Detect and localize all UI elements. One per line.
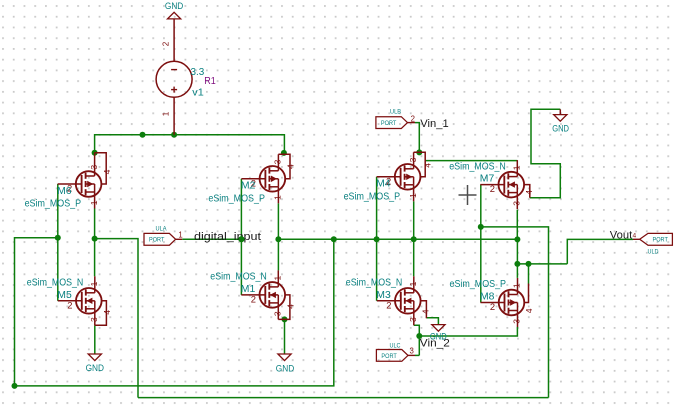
node bus junction M4/M3 drains	[411, 236, 417, 242]
wire Vout riser	[567, 239, 633, 264]
wire M7 source down	[516, 210, 518, 240]
svg-text:2: 2	[162, 41, 171, 46]
svg-text:4: 4	[632, 232, 636, 239]
wire gate bus 227 right	[481, 227, 549, 398]
node M7/M8 gate junction	[478, 224, 484, 230]
svg-text:1: 1	[273, 275, 283, 280]
node Vin_2 junction	[416, 333, 422, 339]
svg-text:1: 1	[408, 281, 418, 286]
wire M3 body to ground	[426, 318, 438, 325]
wire M8 source to net	[419, 327, 517, 336]
wire M3 drain up	[413, 239, 415, 276]
svg-text:4: 4	[286, 304, 296, 309]
svg-text:ULD: ULD	[648, 249, 659, 256]
svg-text:eSim_MOS_N: eSim_MOS_N	[210, 272, 266, 283]
svg-text:1: 1	[273, 195, 283, 200]
wire M7 source to M8 drain	[516, 239, 518, 264]
svg-text:1: 1	[512, 165, 522, 170]
svg-text:GND: GND	[552, 124, 569, 134]
node M1 source junction	[282, 316, 288, 322]
wire M4 body to M7 drain	[426, 160, 518, 162]
wire Vin_1 to M4	[415, 123, 419, 153]
ground below M5	[88, 354, 101, 361]
node inverter2 gate junction	[238, 236, 244, 242]
wire digital_input to inverter2 gates	[182, 238, 241, 240]
node M4 top junction	[416, 149, 422, 155]
svg-text:2: 2	[411, 114, 415, 123]
node bus junction to line A	[331, 236, 337, 242]
svg-text:PORT: PORT	[381, 353, 396, 360]
svg-text:4: 4	[422, 163, 432, 168]
svg-text:M8: M8	[480, 292, 495, 303]
svg-text:4: 4	[524, 190, 534, 195]
wire M7 gate vertical	[480, 185, 482, 227]
node M2 drain junction	[281, 150, 287, 156]
transistor M3	[395, 288, 421, 314]
svg-text:M1: M1	[241, 284, 256, 295]
ground below M1	[278, 354, 291, 361]
wire VDD bus from M6 drain to M2 drain	[95, 135, 285, 153]
node bus junction M4/M3 gates	[374, 236, 380, 242]
svg-text:3: 3	[512, 201, 522, 206]
wire M1 source to ground	[284, 319, 286, 354]
wire M7 body to ground	[530, 109, 561, 198]
svg-text:eSim_MOS_P: eSim_MOS_P	[208, 193, 265, 204]
wire M8 drain stem top	[516, 264, 518, 278]
pin 4 of port ULD	[633, 238, 640, 240]
svg-text:eSim_MOS_P: eSim_MOS_P	[450, 279, 507, 290]
svg-text:2: 2	[386, 299, 391, 310]
svg-text:digital_input: digital_input	[194, 231, 262, 243]
svg-text:2: 2	[67, 299, 72, 310]
transistor M1	[260, 282, 286, 308]
svg-text:v1: v1	[192, 88, 204, 99]
node gate bus junction	[55, 235, 61, 241]
svg-text:Vin_1: Vin_1	[420, 118, 449, 130]
wire inverter2 output M2-M1	[277, 203, 279, 270]
ground below M3 body	[432, 325, 445, 332]
wire Vout horizontal	[517, 263, 567, 265]
svg-text:eSim_MOS_N: eSim_MOS_N	[449, 161, 506, 172]
node M8 body junction	[526, 261, 532, 267]
node inverter2 output junction	[275, 236, 281, 242]
wire M5 source to ground	[94, 325, 96, 354]
transistor M8	[499, 290, 525, 316]
svg-text:PORT: PORT	[149, 237, 164, 244]
svg-text:3: 3	[273, 159, 283, 164]
wire M3 gate vertical	[376, 239, 378, 300]
svg-text:3.3: 3.3	[191, 67, 205, 78]
svg-text:eSim_MOS_N: eSim_MOS_N	[27, 278, 84, 289]
svg-text:M5: M5	[57, 290, 72, 301]
transistor M6	[76, 171, 102, 197]
wire inverter1 output branch right	[95, 239, 138, 398]
svg-text:2: 2	[490, 301, 495, 312]
node inverter2 gate junction dot overlay	[238, 236, 244, 242]
pin 2 of port ULB	[408, 122, 416, 124]
transistor M5	[76, 288, 102, 314]
svg-text:3: 3	[512, 319, 522, 324]
svg-text:4: 4	[421, 309, 431, 314]
svg-text:M3: M3	[376, 290, 391, 301]
transistor M7	[499, 172, 525, 198]
svg-text:GND: GND	[276, 364, 295, 374]
wire Vin_2 vertical	[418, 336, 420, 355]
wire ULC pin to net	[415, 354, 419, 356]
node VDD junction at v1	[171, 132, 177, 138]
svg-text:PORT: PORT	[381, 120, 396, 127]
svg-text:M7: M7	[480, 174, 495, 185]
svg-text:3: 3	[408, 157, 418, 162]
origin cross marker	[459, 194, 477, 196]
port U1C Vin_2	[376, 350, 408, 362]
transistor M2	[260, 166, 286, 192]
svg-text:eSim_MOS_P: eSim_MOS_P	[25, 199, 82, 210]
wire M4 gate vertical	[376, 177, 378, 240]
svg-text:1: 1	[512, 283, 522, 288]
svg-text:ULB: ULB	[390, 108, 401, 115]
svg-text:eSim_MOS_P: eSim_MOS_P	[344, 191, 401, 202]
port U1B Vin_1	[376, 117, 408, 129]
svg-text:3: 3	[89, 165, 99, 170]
wire bottom line A	[15, 239, 334, 386]
svg-text:Vin_2: Vin_2	[420, 337, 450, 349]
node inverter1 output junction	[92, 236, 98, 242]
svg-text:M2: M2	[241, 181, 256, 192]
node M8 drain junction	[514, 261, 520, 267]
wire output bus to right	[278, 238, 517, 240]
wire inverter1 output M6-M5	[94, 209, 96, 277]
svg-text:2: 2	[490, 183, 495, 194]
svg-text:3: 3	[273, 311, 283, 316]
wire M8 gate vertical	[480, 227, 482, 303]
svg-text:GND: GND	[165, 1, 184, 11]
svg-text:eSim_MOS_N: eSim_MOS_N	[346, 278, 403, 289]
svg-text:1: 1	[178, 231, 182, 240]
svg-text:3: 3	[410, 346, 414, 355]
svg-text:1: 1	[89, 281, 99, 286]
port U1A digital_input	[144, 233, 176, 245]
transistor M4	[395, 164, 421, 190]
svg-text:ULA: ULA	[156, 226, 168, 233]
voltage source v1	[156, 19, 205, 135]
node bottom left corner	[12, 383, 18, 389]
svg-text:3: 3	[89, 317, 99, 322]
svg-text:M4: M4	[376, 179, 391, 190]
node VDD stray junction	[140, 132, 146, 138]
ground top GND	[168, 12, 181, 19]
pin 3 of port ULC	[408, 354, 415, 356]
wire gate bus branch left	[15, 238, 58, 386]
svg-text:4: 4	[286, 164, 296, 169]
wire M8 body up	[528, 264, 530, 284]
svg-text:4: 4	[524, 308, 534, 313]
svg-text:M6: M6	[57, 186, 72, 197]
wire M4 drain down	[413, 201, 415, 239]
wire gate bus M6-M5	[57, 184, 59, 301]
svg-text:1: 1	[408, 193, 418, 198]
ground right of M7	[554, 115, 567, 122]
wire M3 source jog	[414, 325, 420, 336]
node Vout bus junction	[514, 236, 520, 242]
svg-text:Vout: Vout	[610, 229, 633, 241]
svg-text:4: 4	[102, 310, 112, 315]
svg-text:4: 4	[102, 169, 112, 174]
svg-text:R1: R1	[204, 76, 216, 87]
svg-text:1: 1	[89, 200, 99, 205]
svg-text:2: 2	[251, 294, 256, 305]
svg-text:PORT: PORT	[653, 237, 668, 244]
port U1D Vout	[640, 233, 673, 245]
svg-text:3: 3	[408, 317, 418, 322]
node M6 drain junction	[92, 150, 98, 156]
wire inverter2 gate bus M2-M1	[240, 179, 242, 295]
svg-text:GND: GND	[86, 363, 105, 373]
svg-text:ULC: ULC	[390, 343, 401, 350]
wire bottom line B	[138, 397, 549, 399]
pin 1 of port ULA	[176, 238, 183, 240]
svg-text:1: 1	[162, 111, 171, 116]
